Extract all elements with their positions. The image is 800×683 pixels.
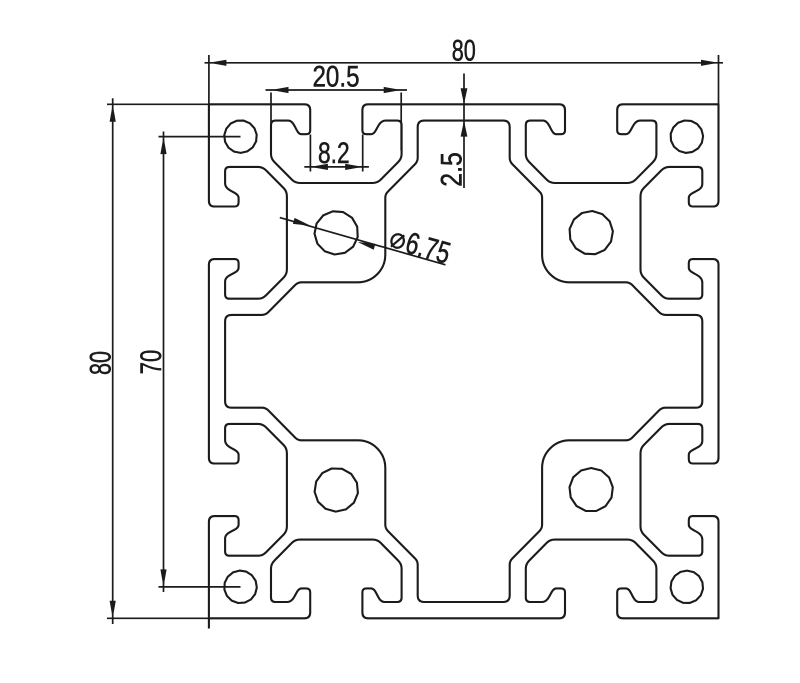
boss hole 4 (o6.75 core hole) [570,468,613,511]
corner hole 2 (mounting hole) [671,121,703,153]
central cross-shaped cavity [225,121,702,602]
extension overshoot BL corner [208,618,210,628]
boss hole 3 (o6.75 core hole) [315,469,358,512]
corner hole 4 (mounting hole) [671,571,703,603]
corner hole 3 (mounting hole) [224,571,256,603]
profile outer boundary with 8 T-slots [209,104,719,618]
svg-text:80: 80 [85,351,118,375]
boss hole 1 (o6.75 core hole) [315,211,358,254]
dim 80 (top overall width) [208,55,210,104]
boss hole 2 (o6.75 core hole) [570,211,613,254]
svg-text:20.5: 20.5 [313,61,360,94]
dim 70 (hole spacing) [159,136,241,138]
dim 2.5 (wall thickness) [463,74,465,189]
svg-text:2.5: 2.5 [436,152,469,187]
dim 8.2 (slot opening width) [309,135,311,172]
dim 80 (left overall height) [107,103,214,105]
svg-text:8.2: 8.2 [318,137,350,170]
corner hole 1 (mounting hole) [224,121,256,153]
dim 20.5 (slot cavity width) [270,93,272,156]
dim o6.75 (boss hole diameter leader) [280,218,446,265]
svg-text:80: 80 [452,35,476,68]
svg-text:70: 70 [135,350,168,375]
